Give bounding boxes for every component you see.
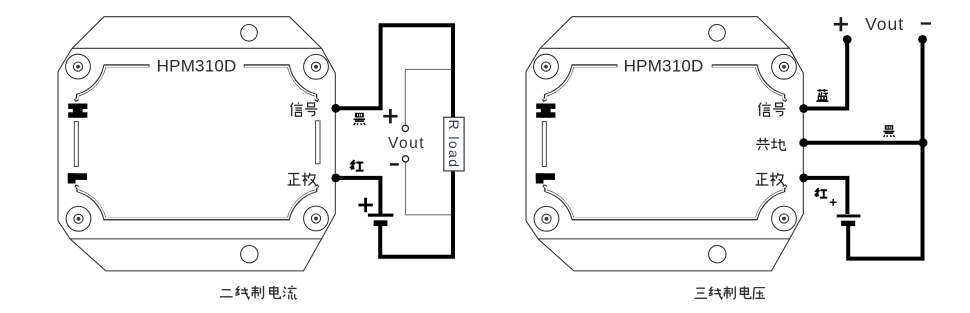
wire: signal (blue) from U2 up to Vout plus bbox=[804, 41, 848, 109]
caption 三线制电压 (three-wire voltage) bbox=[695, 286, 766, 299]
wire: common ground (black) from U2 to junction bbox=[804, 141, 924, 145]
wire: positive (red) from U1 to battery plus bbox=[336, 178, 381, 214]
battery B2 plate long (plus) bbox=[837, 215, 861, 218]
node: Vout minus terminal bbox=[918, 35, 927, 44]
node: junction black wire to minus rail bbox=[919, 138, 928, 147]
wire: positive (red) from U2 down to battery plus bbox=[804, 178, 848, 214]
node: U2 signal terminal bbox=[799, 104, 808, 113]
label 红 (red) right circuit bbox=[815, 188, 827, 198]
sensor module U1 (HPM310D, 2-wire) bbox=[58, 17, 335, 271]
battery B1 plus sign bbox=[358, 198, 372, 212]
label 信号 (signal) U2 bbox=[758, 102, 770, 116]
minus sign at Vout (right) bbox=[921, 22, 931, 24]
node: U2 positive terminal bbox=[799, 174, 808, 183]
sense wire to Vout plus bbox=[405, 69, 451, 125]
svg-text:Vout: Vout bbox=[865, 14, 904, 34]
svg-text:R load: R load bbox=[446, 120, 462, 169]
terminal labels U2 (right module) bbox=[756, 102, 786, 186]
minus sign at Vout bbox=[390, 163, 399, 166]
node: Vout plus terminal bbox=[843, 35, 852, 44]
battery B1 plate long (plus) bbox=[368, 214, 394, 217]
battery B2 plate short (minus) bbox=[841, 221, 855, 226]
CIRCUIT-RIGHT bbox=[804, 41, 924, 259]
node: U1 signal terminal bbox=[331, 104, 340, 113]
svg-text:HPM310D: HPM310D bbox=[157, 57, 237, 76]
svg-text:Vout: Vout bbox=[388, 135, 425, 152]
wire: Vout minus rail down and around to battery minus bbox=[848, 41, 922, 259]
battery B1 plate short (minus) bbox=[374, 220, 388, 226]
terminal circle Vout minus bbox=[402, 156, 408, 162]
battery B2 plus sign bbox=[830, 199, 837, 206]
terminal circle Vout plus bbox=[402, 125, 408, 131]
resistor R load bbox=[444, 117, 464, 171]
right slot (left module) bbox=[316, 121, 320, 164]
label 信号 (signal) U1 bbox=[290, 102, 302, 116]
plus sign at Vout bbox=[383, 109, 397, 123]
label 黑 (black) left circuit bbox=[354, 113, 365, 125]
sensor module U2 (HPM310D, 3-wire) bbox=[526, 17, 803, 271]
wire color labels bbox=[351, 89, 895, 198]
node: U2 common terminal bbox=[799, 138, 808, 147]
svg-text:HPM310D: HPM310D bbox=[624, 57, 704, 76]
terminal labels U1 (left module) bbox=[288, 102, 318, 186]
plus sign at Vout (right) bbox=[834, 17, 848, 31]
label 共地 (common ground) U2 bbox=[756, 138, 769, 150]
label 蓝 (blue) right circuit bbox=[816, 89, 828, 101]
node: U1 positive terminal bbox=[331, 174, 340, 183]
label 红 (red) left circuit bbox=[351, 160, 364, 171]
caption 二线制电流 (two-wire current) bbox=[220, 286, 297, 300]
label 正极 (positive) U2 bbox=[756, 173, 769, 185]
wire: R load bottom around to battery minus bbox=[380, 171, 453, 257]
label 正极 (positive) U1 bbox=[288, 173, 301, 185]
wire: signal (black) from U1 up over to R load bbox=[336, 25, 453, 117]
label 黑 (black) right circuit bbox=[884, 125, 895, 137]
sense wire to Vout minus bbox=[406, 162, 452, 215]
CIRCUIT-LEFT bbox=[336, 25, 453, 257]
